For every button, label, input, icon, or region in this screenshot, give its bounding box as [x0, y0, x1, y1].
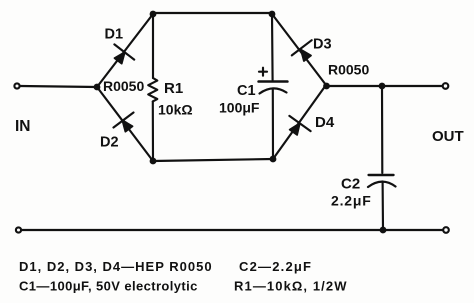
svg-text:C2—2.2μF: C2—2.2μF [239, 259, 312, 274]
wire bottom rail [22, 229, 443, 231]
svg-text:D3: D3 [313, 37, 332, 53]
node C2 tap [379, 83, 386, 90]
svg-text:2.2μF: 2.2μF [331, 193, 372, 209]
svg-text:D4: D4 [315, 114, 335, 131]
svg-text:C2: C2 [341, 176, 360, 193]
diode D1 [114, 44, 134, 63]
wire right junction to OUT terminal [326, 85, 442, 87]
svg-text:IN: IN [15, 118, 31, 135]
node left junction [94, 84, 101, 91]
IN terminal [14, 83, 19, 88]
wire IN to left junction [21, 86, 98, 87]
OUT terminal [443, 83, 449, 89]
svg-text:R1—10kΩ, 1/2W: R1—10kΩ, 1/2W [234, 279, 348, 294]
svg-text:R0050: R0050 [103, 78, 144, 94]
wire bottom-right node to right junction [273, 85, 326, 159]
svg-text:D1, D2, D3, D4—HEP R0050: D1, D2, D3, D4—HEP R0050 [19, 259, 213, 274]
svg-text:C1: C1 [237, 83, 256, 99]
svg-text:D2: D2 [100, 135, 119, 151]
node top-left [150, 11, 157, 18]
bottom rail right terminal [443, 227, 449, 233]
plus sign of C1 [259, 68, 267, 76]
capacitor C1 [259, 14, 288, 159]
bottom rail left terminal [16, 227, 21, 232]
wire left junction to bottom-left node [97, 87, 153, 161]
svg-text:R0050: R0050 [328, 62, 369, 78]
wire diamond bottom rail [153, 159, 273, 161]
node bottom-right [270, 156, 277, 163]
capacitor C2 [368, 86, 396, 230]
node right junction [323, 83, 330, 90]
svg-text:10kΩ: 10kΩ [158, 102, 193, 118]
svg-text:OUT: OUT [432, 128, 464, 145]
wire top-right node to right junction [272, 14, 326, 85]
node bottom-left [150, 158, 157, 165]
wire left junction to top-left node [97, 14, 153, 87]
svg-text:C1—100μF, 50V electrolytic: C1—100μF, 50V electrolytic [19, 279, 198, 294]
svg-text:R1: R1 [164, 80, 183, 97]
node top-right [269, 11, 276, 18]
svg-text:D1: D1 [105, 27, 124, 43]
diode D2 [114, 113, 134, 132]
diode D4 [289, 116, 310, 135]
diode D3 [292, 40, 312, 61]
node bottom C2 junction [380, 227, 387, 234]
resistor R1 [148, 14, 157, 161]
wire top rail [153, 12, 272, 14]
svg-text:100μF: 100μF [219, 100, 260, 116]
